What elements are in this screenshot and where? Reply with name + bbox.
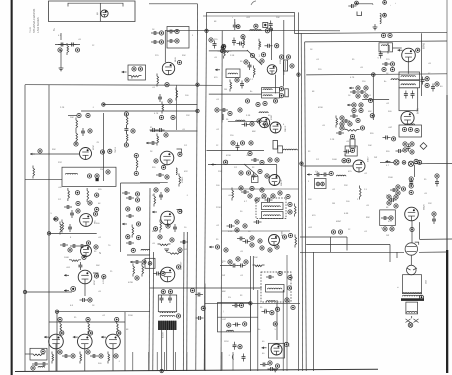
capacitor C80	[435, 179, 439, 187]
terminal dot	[71, 354, 75, 358]
wire	[148, 352, 150, 371]
capacitor C54	[314, 173, 322, 177]
resistor R20	[142, 264, 144, 277]
terminal dot	[201, 306, 205, 310]
tube V23 rectifier	[271, 344, 282, 355]
resistor R12	[60, 321, 62, 334]
terminal dot	[135, 276, 139, 280]
svg-text:470K: 470K	[128, 282, 134, 284]
terminal dot	[416, 48, 420, 52]
capacitor C9	[126, 196, 134, 200]
svg-text:12K: 12K	[428, 203, 432, 205]
terminal dot	[250, 122, 254, 126]
wire rail x184	[182, 232, 185, 371]
terminal dot	[396, 191, 400, 195]
capacitor C66	[238, 264, 246, 268]
terminal dot	[245, 78, 249, 82]
wire	[271, 29, 273, 60]
terminal dot	[244, 260, 248, 264]
terminal dot	[60, 331, 64, 335]
wire	[120, 183, 122, 252]
terminal dot	[176, 314, 180, 318]
svg-text:270K: 270K	[216, 207, 221, 209]
terminal dot	[270, 311, 274, 315]
resistor R48	[162, 102, 164, 114]
terminal dot	[165, 175, 169, 179]
test point arrow	[347, 104, 352, 107]
terminal dot	[162, 165, 166, 169]
terminal dot	[250, 53, 254, 57]
capacitor C50b	[350, 114, 358, 118]
svg-text:68K: 68K	[222, 291, 226, 293]
test point arrow	[146, 142, 151, 145]
wire	[150, 287, 262, 289]
svg-text:150K: 150K	[388, 177, 393, 179]
wire	[55, 349, 57, 371]
capacitor C72	[233, 342, 237, 350]
capacitor C47b	[404, 91, 408, 99]
terminal dot	[321, 182, 325, 186]
wire	[60, 33, 62, 40]
node tuner input	[128, 65, 146, 80]
wire	[221, 352, 223, 371]
inductor L2	[38, 366, 45, 367]
terminal dot	[41, 349, 45, 353]
resistor R4	[76, 131, 78, 144]
wire	[56, 312, 58, 371]
wire	[303, 165, 353, 167]
terminal dot	[168, 99, 172, 103]
resistor R40	[345, 130, 360, 132]
resistor R32 block	[285, 89, 289, 97]
terminal dot	[89, 331, 93, 335]
wire	[150, 130, 198, 132]
svg-text:470K: 470K	[318, 107, 323, 109]
terminal dot	[215, 108, 219, 112]
svg-text:47K: 47K	[184, 171, 188, 173]
wire	[276, 165, 278, 178]
tube V21 HV rectifier top circle	[407, 265, 417, 275]
terminal dot	[425, 83, 429, 87]
terminal dot	[350, 148, 354, 152]
svg-text:5%: 5%	[228, 297, 231, 299]
terminal dot	[389, 216, 393, 220]
capacitor C67	[266, 275, 274, 279]
terminal dot	[279, 55, 283, 59]
capacitor C32	[220, 108, 228, 112]
terminal dot	[331, 230, 335, 234]
terminal dot	[260, 160, 264, 164]
resistor R2	[129, 76, 142, 78]
svg-text:10K: 10K	[70, 117, 74, 119]
wire	[127, 254, 150, 256]
capacitor C9b	[126, 214, 134, 218]
capacitor C23	[173, 224, 177, 232]
terminal dot	[131, 248, 135, 252]
box low voltage supply	[218, 303, 251, 332]
capacitor C48	[350, 90, 358, 94]
terminal dot	[142, 260, 146, 264]
terminal dot	[432, 212, 436, 216]
box flyback top	[158, 295, 176, 312]
capacitor C18	[133, 260, 141, 264]
svg-text:6CB6: 6CB6	[271, 115, 273, 120]
terminal dot	[402, 161, 406, 165]
capacitor C13	[80, 298, 88, 302]
box drive network	[380, 210, 396, 226]
capacitor C24	[180, 240, 188, 244]
inductor L8	[283, 149, 297, 150]
svg-text:6V6: 6V6	[63, 331, 65, 334]
svg-text:S: S	[99, 251, 101, 255]
wire	[330, 237, 332, 252]
capacitor C3b	[124, 126, 128, 134]
terminal dot	[154, 188, 158, 192]
terminal dot	[414, 159, 418, 163]
terminal dot	[288, 202, 292, 206]
wire	[204, 284, 206, 372]
wire	[149, 3, 198, 5]
svg-text:33K: 33K	[366, 217, 370, 219]
terminal dot	[356, 118, 360, 122]
wire	[25, 291, 72, 293]
transformer T6 HV cage	[403, 275, 422, 294]
terminal dot	[117, 331, 121, 335]
capacitor C49	[358, 90, 366, 94]
terminal dot	[258, 169, 262, 173]
terminal dot	[340, 116, 344, 120]
tube V9 video amp	[160, 151, 174, 165]
wire	[49, 321, 125, 323]
capacitor C61	[154, 272, 162, 276]
terminal dot	[290, 64, 294, 68]
terminal dot	[68, 248, 72, 252]
terminal dot	[74, 142, 78, 146]
wire	[84, 284, 86, 296]
tube V13 IF amp 2	[259, 117, 269, 127]
resistor R38	[388, 43, 390, 54]
ground	[273, 369, 278, 372]
resistor R26	[243, 36, 245, 48]
terminal dot	[383, 227, 387, 231]
wire	[222, 230, 290, 232]
terminal dot	[224, 160, 228, 164]
terminal dot	[273, 322, 277, 326]
capacitor C35	[251, 158, 259, 162]
capacitor C34	[236, 143, 240, 151]
terminal dot	[95, 174, 99, 178]
test point arrow	[209, 246, 214, 249]
terminal dot	[359, 103, 363, 107]
resistor R4b	[126, 115, 128, 128]
capacitor C60	[381, 216, 389, 220]
terminal dot	[250, 236, 254, 240]
terminal dot	[260, 246, 264, 250]
box audio coupling	[399, 88, 418, 111]
svg-text:10K: 10K	[368, 145, 372, 147]
terminal dot	[409, 190, 413, 194]
capacitor C50	[342, 119, 350, 123]
terminal dot	[246, 171, 250, 175]
wire	[407, 62, 409, 74]
capacitor C55	[321, 173, 329, 177]
terminal dot	[316, 182, 320, 186]
wire left rail 2	[48, 85, 50, 371]
svg-text:100K: 100K	[64, 257, 69, 259]
capacitor C57	[396, 149, 404, 153]
resistor R30	[254, 66, 256, 78]
resistor R21	[157, 134, 159, 146]
capacitor C26	[269, 21, 273, 29]
components on rails x196-204	[190, 288, 194, 292]
wire rail x222	[221, 31, 222, 371]
wire	[99, 3, 101, 21]
transformer T5 sound IF	[399, 80, 420, 87]
junction dot	[372, 73, 376, 77]
wire	[208, 164, 277, 166]
terminal dot	[176, 265, 180, 269]
terminal dot	[265, 174, 269, 178]
wire sound bus	[306, 74, 447, 75]
terminal dot	[240, 141, 244, 145]
capacitor C29	[265, 44, 273, 48]
terminal dot	[250, 186, 254, 190]
svg-text:1-512 SERIES: 1-512 SERIES	[37, 17, 40, 33]
capacitor C77	[151, 40, 159, 44]
capacitor C71	[268, 367, 276, 371]
inductor L6	[263, 95, 272, 96]
svg-text:115V: 115V	[224, 341, 229, 343]
wire vertical rail 1	[196, 4, 198, 371]
capacitor C74	[167, 30, 175, 34]
terminal dot	[177, 60, 181, 64]
wire diagonal	[244, 164, 258, 176]
component meter M1	[408, 323, 413, 328]
box rectifier cage	[269, 343, 285, 358]
tube V12 IF amp	[267, 65, 277, 75]
terminal dot	[284, 342, 288, 346]
wire to RF tube	[164, 30, 166, 62]
capacitor C44	[379, 51, 383, 59]
svg-text:6CB6: 6CB6	[282, 231, 284, 236]
wire bracket	[68, 3, 123, 6]
terminal dot	[275, 158, 279, 162]
capacitor C25	[233, 22, 237, 30]
svg-text:22K: 22K	[344, 185, 348, 187]
wire	[419, 251, 447, 253]
terminal dot	[82, 255, 86, 259]
capacitor C43	[348, 4, 356, 8]
wire	[140, 182, 168, 184]
terminal dot	[382, 67, 386, 71]
terminal dot	[95, 207, 99, 211]
test point arrow	[385, 160, 390, 163]
wire	[205, 302, 300, 304]
svg-text:220K: 220K	[128, 315, 133, 317]
wire audio output bus	[57, 311, 150, 313]
wire	[207, 150, 265, 152]
terminal dot	[356, 94, 360, 98]
wire	[102, 113, 104, 181]
capacitor C51	[336, 131, 344, 135]
capacitor C40	[254, 220, 262, 224]
wire curve mark	[251, 1, 256, 5]
wire	[355, 3, 373, 5]
terminal dot	[408, 127, 412, 131]
svg-text:1W: 1W	[386, 235, 389, 237]
inductor L14	[226, 330, 233, 331]
wire long rail right of IF strip	[298, 12, 300, 371]
terminal dot	[394, 195, 398, 199]
svg-text:6SN7: 6SN7	[93, 145, 95, 150]
wire rail x153	[152, 252, 155, 371]
terminal dot	[338, 230, 342, 234]
wire	[419, 222, 421, 239]
capacitor C5	[70, 210, 74, 218]
terminal dot	[279, 94, 283, 98]
wire	[164, 352, 166, 371]
test point arrow	[152, 211, 157, 214]
svg-text:SYLVANIA CHASSIS: SYLVANIA CHASSIS	[32, 8, 36, 33]
transformer T7 flyback windings	[160, 312, 175, 313]
terminal dot	[94, 274, 98, 278]
terminal dot	[248, 194, 252, 198]
capacitor C28	[237, 42, 245, 46]
box fine tuning coil	[226, 69, 240, 78]
tube V14b 2ND IF	[269, 175, 280, 186]
terminal dot	[355, 1, 359, 5]
svg-text:6V6: 6V6	[120, 331, 122, 334]
terminal dot	[239, 171, 243, 175]
capacitor C14	[62, 354, 70, 358]
inductor L2b	[141, 249, 150, 250]
terminal dot	[134, 171, 138, 175]
tube V3 vertical output	[80, 214, 93, 227]
junction dot	[71, 287, 76, 292]
terminal dot	[164, 133, 168, 137]
svg-text:10K: 10K	[254, 257, 258, 259]
wire	[411, 316, 413, 318]
svg-text:56K: 56K	[96, 265, 100, 267]
wire	[294, 12, 296, 33]
test point arrow	[122, 223, 127, 226]
terminal dot	[221, 45, 225, 49]
wire	[286, 255, 288, 371]
inductor L9b	[382, 45, 389, 46]
test point arrow	[215, 69, 220, 72]
resistor R33	[222, 112, 224, 123]
tube V17 audio amp	[401, 111, 414, 124]
resistor R26b	[218, 51, 232, 53]
capacitor C22	[159, 192, 163, 200]
terminal dot	[352, 103, 356, 107]
terminal dot	[352, 108, 356, 112]
capacitor C17	[40, 362, 48, 366]
resistor R14	[117, 321, 119, 334]
svg-text:68K: 68K	[252, 131, 256, 133]
svg-text:6AG5: 6AG5	[174, 57, 177, 62]
wire vertical rails mid-bottom	[249, 256, 251, 371]
terminal dot	[279, 87, 283, 91]
resistor R18	[31, 354, 45, 356]
terminal dot	[178, 152, 182, 156]
wire	[218, 316, 259, 318]
capacitor C11	[70, 244, 78, 248]
terminal dot	[132, 67, 136, 71]
terminal dot	[239, 303, 243, 307]
test point arrow	[73, 336, 78, 339]
capacitor C16	[32, 362, 40, 366]
terminal dot	[257, 119, 261, 123]
terminal dot	[166, 224, 170, 228]
terminal dot	[278, 271, 282, 275]
terminal dot	[236, 25, 240, 29]
resistor R4c	[126, 132, 128, 144]
svg-text:1.5K: 1.5K	[230, 55, 235, 57]
resistor R39	[336, 116, 338, 128]
wire	[60, 50, 62, 68]
wire rail x187	[186, 232, 189, 371]
terminal dot	[409, 184, 413, 188]
capacitor C15	[90, 354, 98, 358]
transformer T8	[266, 285, 285, 293]
terminal dot	[370, 114, 374, 118]
wire	[232, 352, 234, 371]
terminal dot	[342, 159, 346, 163]
terminal dot	[135, 192, 139, 196]
terminal dot	[245, 99, 249, 103]
ground	[59, 68, 64, 71]
wire left rail	[24, 85, 26, 371]
svg-text:6BQ6: 6BQ6	[424, 204, 426, 210]
inductor L4 IF coil	[250, 30, 261, 31]
wire AGC bus	[25, 84, 222, 87]
capacitor C75	[167, 39, 175, 43]
resistor R22	[179, 174, 181, 187]
inductor L9	[380, 13, 381, 23]
terminal dot	[258, 239, 262, 243]
test point arrow	[44, 336, 49, 339]
wire	[257, 290, 259, 371]
terminal dot	[235, 220, 239, 224]
component flag	[93, 273, 98, 277]
terminal dot	[265, 29, 269, 33]
test point arrow	[30, 153, 35, 156]
capacitor C10	[126, 241, 134, 245]
capacitor C12b	[78, 262, 82, 270]
resistor R17	[108, 352, 110, 364]
capacitor C63	[160, 295, 164, 303]
component trimmer box	[263, 23, 268, 28]
terminal dot	[271, 194, 275, 198]
terminal dot	[175, 29, 179, 33]
svg-text:680K: 680K	[152, 231, 157, 233]
wire bracket	[232, 355, 233, 360]
tube V7 audio output	[78, 334, 93, 349]
right page border line	[446, 0, 448, 95]
terminal dot	[394, 204, 398, 208]
wire	[372, 75, 374, 120]
terminal dot	[209, 38, 213, 42]
transformer T4 sound IF	[399, 72, 420, 80]
terminal dot	[170, 238, 174, 242]
svg-text:6AV6: 6AV6	[417, 108, 420, 114]
capacitor C45	[382, 62, 390, 66]
wire	[396, 252, 398, 258]
svg-text:6SN7: 6SN7	[336, 221, 342, 223]
wire inner top of IF box	[203, 15, 295, 17]
terminal dot	[175, 39, 179, 43]
